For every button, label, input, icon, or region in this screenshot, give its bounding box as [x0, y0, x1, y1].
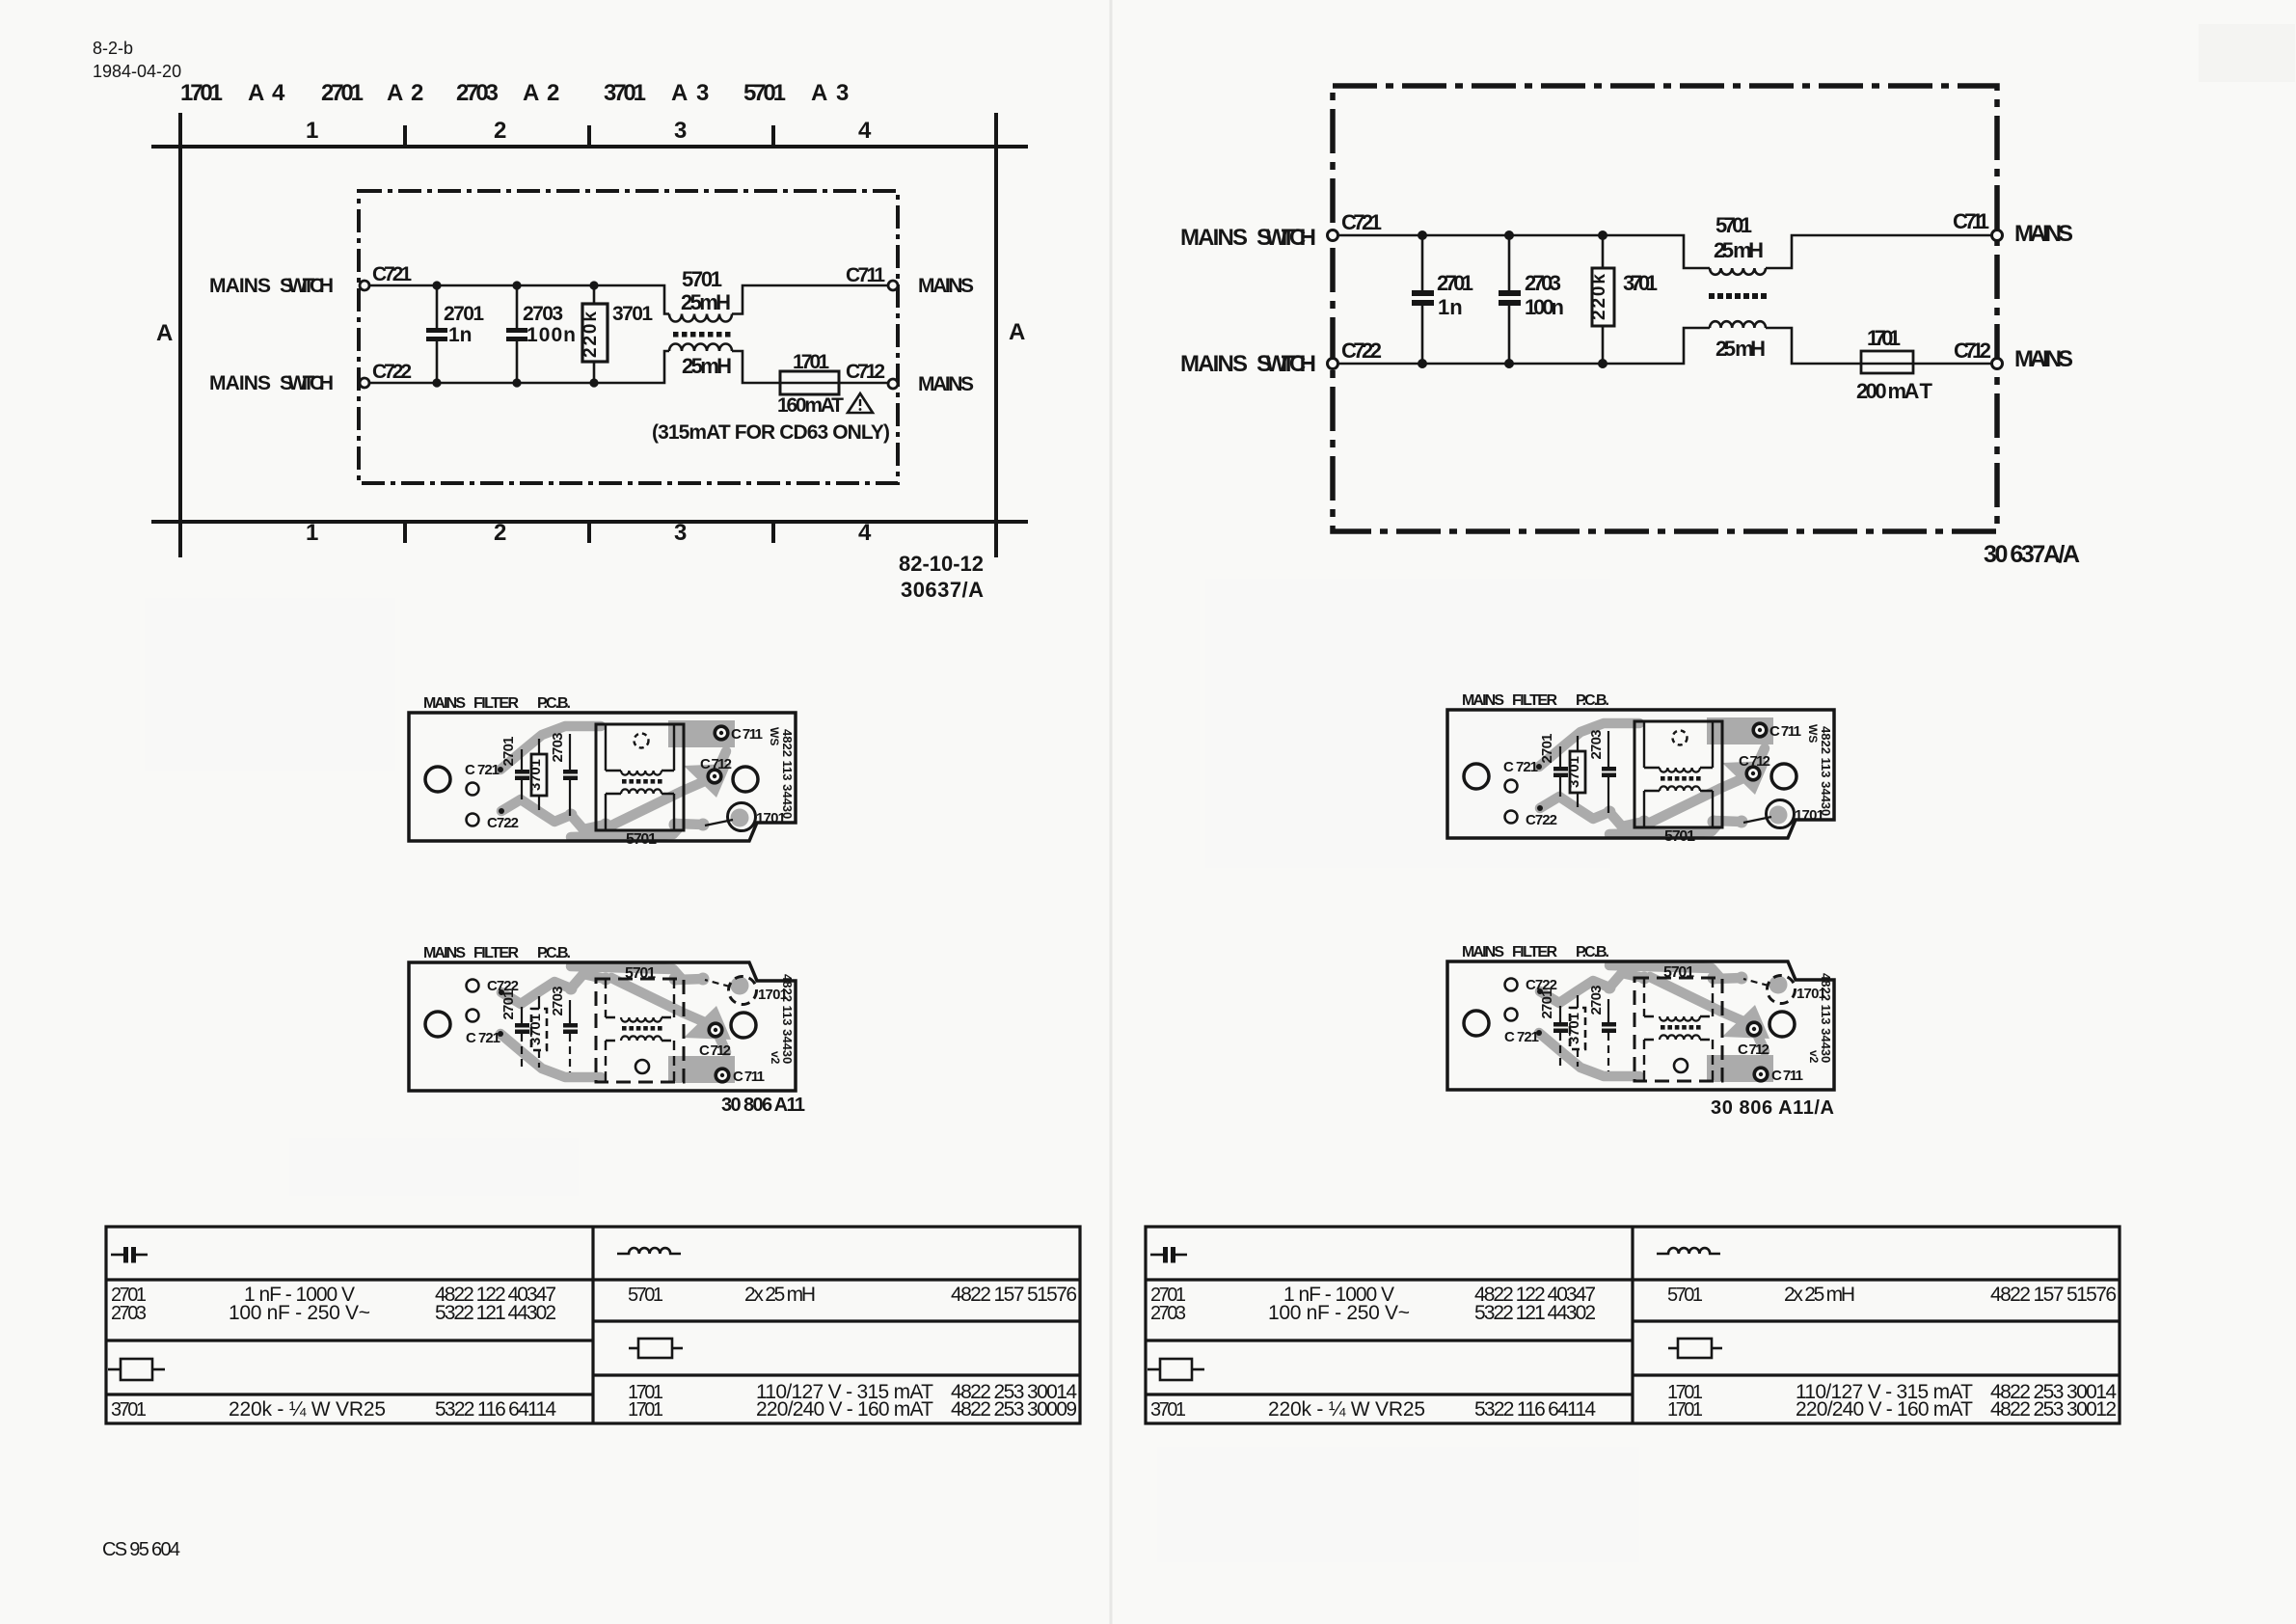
board outline [409, 962, 796, 1091]
svg-text:SWITCH: SWITCH [1256, 351, 1316, 377]
svg-text:1701: 1701 [180, 80, 223, 106]
svg-text:3: 3 [674, 118, 687, 144]
transformer core dots [1709, 293, 1767, 299]
column ticks top [403, 125, 407, 147]
svg-text:30637/A: 30637/A [901, 578, 984, 602]
svg-text:MAINS: MAINS [2014, 346, 2073, 372]
resistor 3701 [593, 285, 596, 304]
svg-text:100n: 100n [527, 324, 576, 346]
svg-text:C722: C722 [372, 361, 412, 383]
svg-text:v2: v2 [769, 1051, 782, 1065]
bottom coil right step [732, 351, 780, 383]
pad C721 [498, 767, 503, 772]
svg-text:CS 95 604: CS 95 604 [102, 1539, 180, 1560]
mounting hole left [425, 1012, 450, 1037]
capacitor symbol [111, 1254, 123, 1257]
svg-text:5701: 5701 [1715, 213, 1752, 237]
svg-text:25mH: 25mH [681, 290, 731, 314]
page fold line [1110, 0, 1113, 1624]
terminal C711 [1992, 230, 2003, 241]
svg-text:5701: 5701 [682, 267, 722, 291]
left row line 1 [106, 1278, 593, 1281]
svg-text:C 721: C 721 [465, 762, 500, 778]
svg-text:30 806 A11: 30 806 A11 [721, 1095, 805, 1116]
svg-text:1701: 1701 [1867, 326, 1901, 350]
svg-text:8-2-b: 8-2-b [93, 39, 133, 58]
svg-text:MAINS: MAINS [209, 275, 271, 297]
svg-text:C712: C712 [846, 361, 885, 383]
bottom wire C722 to coil [369, 351, 669, 383]
svg-text:WS: WS [768, 727, 781, 745]
svg-text:220k: 220k [1589, 274, 1609, 320]
svg-text:C 712: C 712 [700, 756, 732, 772]
junction dots top wire [432, 281, 441, 289]
svg-text:C721: C721 [372, 263, 412, 285]
transformer winding bottom [621, 789, 662, 794]
pointer line 1701 [705, 820, 733, 826]
transformer core dots [673, 332, 731, 338]
inductor symbol [617, 1248, 681, 1254]
svg-text:C711: C711 [846, 264, 885, 286]
fuse hole 1701 [728, 803, 756, 831]
pointer line 1701 (pcb2) [705, 980, 730, 987]
svg-text:2703: 2703 [550, 733, 566, 763]
svg-text:SWITCH: SWITCH [280, 372, 334, 394]
svg-text:MAINS: MAINS [209, 372, 271, 394]
svg-text:100n: 100n [1525, 295, 1564, 319]
bottom wire [1338, 328, 1710, 364]
svg-text:3701: 3701 [527, 759, 544, 791]
frame left border [178, 113, 182, 557]
svg-text:A: A [156, 320, 173, 346]
svg-text:C 712: C 712 [699, 1042, 731, 1059]
bottom coil right step [1766, 328, 1861, 364]
svg-text:3701: 3701 [527, 1014, 544, 1045]
svg-text:4: 4 [858, 118, 872, 144]
svg-text:P.C.B.: P.C.B. [537, 695, 571, 712]
copper traces (mirrored) [500, 966, 749, 1083]
svg-text:2703: 2703 [550, 987, 566, 1016]
svg-text:MAINS: MAINS [918, 275, 974, 297]
svg-text:5701: 5701 [625, 965, 656, 982]
dash-dot assembly box [359, 191, 898, 483]
junction dots bottom [1418, 359, 1427, 368]
svg-text:C721: C721 [1341, 210, 1382, 234]
svg-text:FILTER: FILTER [473, 945, 519, 961]
svg-text:160mAT: 160mAT [777, 394, 844, 417]
terminal C712 [1992, 359, 2003, 369]
resistor symbol (left) [108, 1368, 121, 1371]
transformer core dots (pcb2) [622, 1026, 662, 1031]
capacitor 2701 (pcb) [521, 749, 523, 770]
fuse 1701 [780, 382, 888, 385]
svg-text:1n: 1n [448, 324, 473, 346]
pad C722 [499, 808, 504, 814]
svg-text:25 mH: 25 mH [1714, 238, 1764, 262]
terminal C722 [1328, 359, 1338, 369]
resistor 3701 (pcb2, dashed) [538, 996, 540, 1009]
svg-text:1n: 1n [1438, 295, 1463, 319]
svg-text:3701: 3701 [604, 80, 646, 106]
capacitor 2703 [1508, 235, 1511, 290]
svg-text:5701: 5701 [626, 831, 657, 848]
hole C721 [467, 1010, 479, 1022]
svg-text:2x 25 mH: 2x 25 mH [744, 1284, 816, 1306]
mounting hole right [731, 1013, 756, 1038]
transformer 5701 body (dashed) [596, 979, 684, 1082]
pad C712 (pcb2) [709, 1023, 722, 1037]
top wire [1338, 235, 1710, 268]
svg-text:C 711: C 711 [731, 726, 763, 743]
svg-text:2703: 2703 [1525, 271, 1561, 295]
svg-text:MAINS: MAINS [2014, 221, 2073, 247]
junction dots top [1418, 230, 1427, 240]
svg-text:2701: 2701 [1437, 271, 1473, 295]
transformer winding top (pcb2) [621, 1017, 662, 1022]
svg-text:5322 116 64114: 5322 116 64114 [435, 1398, 556, 1421]
svg-text:2701: 2701 [500, 737, 517, 767]
inductor 5701 top winding [1710, 268, 1766, 275]
svg-text:100 nF - 250 V~: 100 nF - 250 V~ [229, 1302, 370, 1324]
svg-text:2701: 2701 [500, 990, 517, 1020]
inductor 5701 top winding [669, 314, 732, 322]
board outline [409, 713, 796, 841]
svg-text:2: 2 [494, 520, 506, 546]
svg-text:FILTER: FILTER [473, 695, 519, 712]
pad C722 [499, 989, 504, 995]
svg-text:30 806 A11/A: 30 806 A11/A [1711, 1097, 1834, 1119]
transformer pins top (pcb2) [606, 979, 674, 1017]
transformer hole (pcb2) [635, 1060, 649, 1073]
svg-text:3701: 3701 [612, 303, 653, 325]
svg-text:1701: 1701 [793, 351, 829, 373]
transformer winding top [621, 771, 662, 775]
svg-text:(315mAT FOR CD63 ONLY): (315mAT FOR CD63 ONLY) [652, 421, 890, 444]
svg-text:4822 253 30009: 4822 253 30009 [951, 1398, 1077, 1421]
hole C721 [467, 783, 479, 796]
hole C722 [467, 980, 479, 992]
svg-text:220k: 220k [581, 311, 601, 358]
svg-text:3: 3 [836, 80, 849, 106]
svg-text:C 711: C 711 [733, 1069, 765, 1085]
svg-text:C 711: C 711 [1953, 209, 1989, 233]
svg-text:A: A [523, 80, 539, 106]
copper traces (gray) [500, 720, 749, 837]
svg-text:5701: 5701 [628, 1285, 663, 1306]
frame bottom border [151, 520, 1028, 524]
right row line 1 [593, 1278, 1080, 1281]
svg-text:MAINS: MAINS [423, 945, 466, 961]
mounting hole left [425, 767, 450, 792]
svg-text:1984-04-20: 1984-04-20 [93, 62, 181, 81]
capacitor 2701 (pcb2) [521, 1007, 523, 1023]
svg-text:2701: 2701 [444, 303, 484, 325]
svg-text:5322 121 44302: 5322 121 44302 [435, 1302, 556, 1324]
column ticks bottom [403, 522, 407, 543]
junction dots bottom wire [432, 378, 441, 387]
left row line 3 [106, 1393, 593, 1395]
pad C721 [498, 1031, 503, 1037]
top coil right step [1766, 235, 1992, 268]
mounting hole right (pcb1) [733, 767, 758, 792]
pad C712 [708, 770, 721, 783]
svg-text:MAINS: MAINS [918, 373, 974, 395]
svg-text:200 mA T: 200 mA T [1856, 379, 1933, 403]
svg-text:SWITCH: SWITCH [1256, 225, 1316, 251]
svg-text:MAINS: MAINS [423, 695, 466, 712]
svg-text:2701: 2701 [321, 80, 364, 106]
svg-text:82-10-12: 82-10-12 [899, 552, 984, 576]
table outer border [106, 1227, 1080, 1423]
pad C711 [715, 726, 728, 740]
frame top border [151, 145, 1028, 149]
svg-text:5701: 5701 [743, 80, 786, 106]
dash-dot assembly border [1333, 86, 1997, 531]
transformer winding bottom (pcb2) [621, 1036, 662, 1041]
resistor 3701 (pcb) [538, 739, 540, 754]
svg-text:3: 3 [696, 80, 709, 106]
svg-text:4: 4 [858, 520, 872, 546]
svg-text:2: 2 [411, 80, 423, 106]
svg-text:3701: 3701 [111, 1399, 147, 1421]
transformer hole (dashed) [635, 734, 649, 748]
svg-text:30 637A/A: 30 637A/A [1984, 541, 2080, 568]
svg-text:25mH: 25mH [682, 354, 732, 378]
capacitor 2703 (pcb) [569, 734, 571, 770]
right row line 3 [593, 1373, 1080, 1376]
svg-text:MAINS: MAINS [1180, 351, 1248, 377]
right row line 2 [593, 1319, 1080, 1322]
svg-text:A: A [811, 80, 827, 106]
svg-text:220/240 V - 160 mAT: 220/240 V - 160 mAT [756, 1398, 933, 1421]
svg-text:2703: 2703 [523, 303, 563, 325]
svg-text:4822 157 51576: 4822 157 51576 [951, 1284, 1077, 1306]
top wire C721 to coil [369, 285, 669, 314]
hole C722 [467, 814, 479, 826]
svg-text:P.C.B.: P.C.B. [537, 945, 571, 961]
table divider [591, 1227, 594, 1423]
svg-text:MAINS: MAINS [1180, 225, 1248, 251]
transformer 5701 body [596, 724, 684, 830]
svg-text:4822 113 34430: 4822 113 34430 [780, 729, 795, 819]
inductor 5701 bottom winding [1710, 321, 1766, 328]
capacitor 2703 [516, 285, 519, 328]
capacitor 2703 (pcb2) [569, 1000, 571, 1023]
svg-text:25 mH: 25 mH [1715, 337, 1766, 361]
terminal C722 [360, 378, 369, 388]
svg-text:1701: 1701 [628, 1399, 663, 1421]
top coil right step [732, 285, 888, 314]
capacitor 2701 [1421, 235, 1424, 290]
fuse 1701 [1861, 363, 1992, 365]
svg-text:220k - ¼ W VR25: 220k - ¼ W VR25 [229, 1398, 386, 1421]
frame right border [994, 113, 998, 557]
svg-text:4: 4 [272, 80, 285, 106]
svg-text:3701: 3701 [1623, 271, 1658, 295]
svg-text:3: 3 [674, 520, 687, 546]
resistor 3701 [1602, 235, 1605, 268]
capacitor 2701 [436, 285, 439, 328]
svg-text:1: 1 [306, 520, 318, 546]
svg-text:4822 253 30012: 4822 253 30012 [1990, 1398, 2117, 1421]
inductor 5701 bottom winding [669, 344, 732, 351]
svg-text:2703: 2703 [456, 80, 499, 106]
pad C711 (pcb2) [716, 1069, 729, 1082]
terminal C721 [360, 281, 369, 290]
fuse hole 1701 (dashed) [729, 977, 757, 1005]
terminal C711 [888, 281, 898, 290]
left row line 2 [106, 1339, 593, 1341]
transformer core dots [622, 779, 662, 784]
svg-text:C712: C712 [1954, 338, 1991, 363]
svg-text:2703: 2703 [111, 1303, 147, 1324]
svg-text:C722: C722 [487, 815, 519, 831]
svg-text:SWITCH: SWITCH [280, 275, 334, 297]
svg-text:C 721: C 721 [466, 1030, 500, 1046]
warning triangle [848, 393, 873, 413]
svg-text:2: 2 [547, 80, 559, 106]
fuse symbol (right) [629, 1347, 638, 1350]
svg-text:1: 1 [306, 118, 318, 144]
svg-text:A: A [1009, 319, 1025, 345]
svg-text:A: A [387, 80, 403, 106]
svg-text:C722: C722 [1341, 338, 1382, 363]
transformer pins bottom [606, 794, 674, 830]
transformer pins bottom (pcb2) [606, 1041, 674, 1082]
svg-text:2: 2 [494, 118, 506, 144]
svg-text:A: A [248, 80, 264, 106]
terminal C712 [888, 379, 898, 389]
terminal C721 [1328, 230, 1338, 241]
svg-text:A: A [671, 80, 688, 106]
transformer pins top [606, 724, 674, 771]
